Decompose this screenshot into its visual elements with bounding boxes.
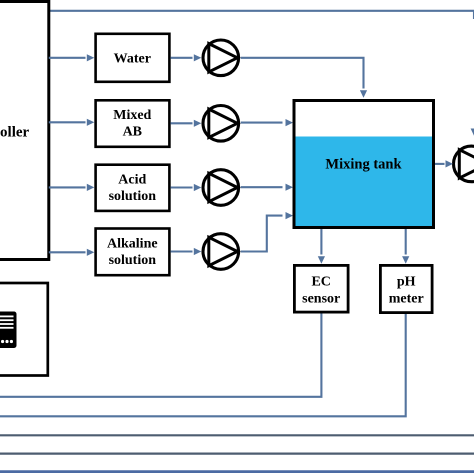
svg-text:Alkaline: Alkaline [107,237,158,252]
svg-text:Water: Water [114,52,151,67]
svg-text:Acid: Acid [118,173,146,188]
svg-text:meter: meter [389,292,424,307]
svg-text:EC: EC [311,275,330,290]
svg-text:solution: solution [109,253,157,268]
svg-text:Mixed: Mixed [113,108,151,123]
svg-text:AB: AB [123,125,142,140]
svg-text:Mixing tank: Mixing tank [325,157,402,173]
svg-text:solution: solution [109,189,157,204]
svg-text:pH: pH [397,275,416,290]
svg-text:Controller: Controller [0,125,30,141]
svg-text:sensor: sensor [302,292,340,307]
